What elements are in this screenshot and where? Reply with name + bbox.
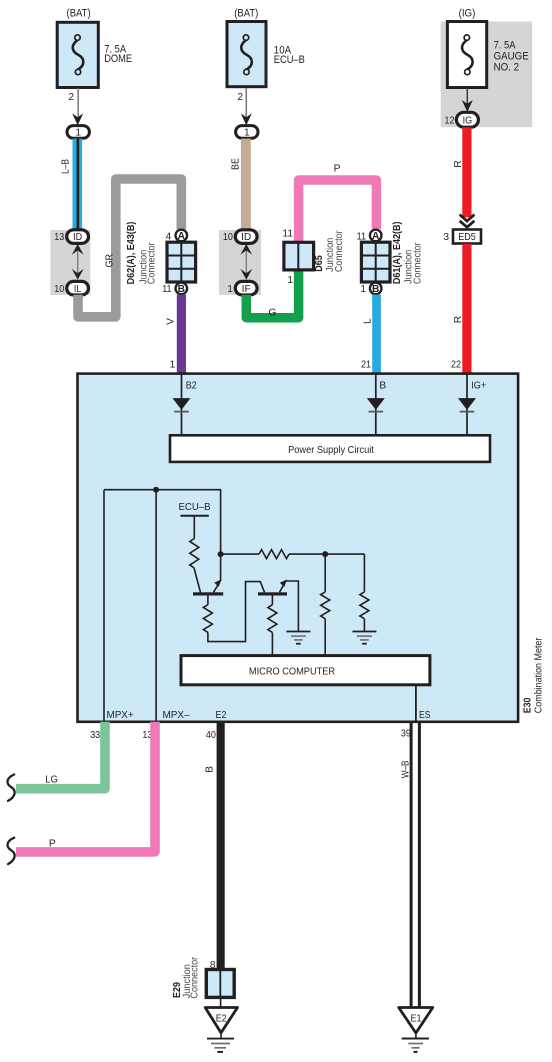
svg-text:1: 1 bbox=[244, 128, 250, 139]
rail2 wire bbox=[221, 553, 365, 555]
connector circle B (D61) bbox=[370, 283, 382, 295]
svg-text:E2: E2 bbox=[216, 1014, 227, 1025]
node dot rail2 bbox=[322, 551, 328, 557]
svg-text:P: P bbox=[49, 838, 56, 849]
diode D-IG bbox=[458, 398, 476, 412]
resistor R-horizontal bbox=[259, 550, 289, 559]
wire P (MPX-) bbox=[16, 722, 155, 852]
svg-text:B2: B2 bbox=[186, 380, 197, 391]
branch resistor to micro computer bbox=[321, 554, 330, 656]
svg-text:12: 12 bbox=[445, 116, 455, 127]
branch resistor to ground bbox=[360, 554, 369, 631]
svg-text:D65: D65 bbox=[314, 255, 325, 272]
meter pin line IG+ bbox=[466, 374, 468, 436]
connector circle 1 (F1) bbox=[67, 126, 89, 139]
transistor Q1 bbox=[193, 579, 223, 595]
svg-text:2: 2 bbox=[68, 92, 74, 103]
svg-text:1: 1 bbox=[75, 128, 81, 139]
wire LG bbox=[16, 722, 105, 789]
svg-text:D62(A), E43(B): D62(A), E43(B) bbox=[126, 222, 137, 285]
svg-text:ED5: ED5 bbox=[458, 232, 476, 243]
connector IG bbox=[456, 112, 478, 127]
svg-text:D61(A), E42(B): D61(A), E42(B) bbox=[392, 221, 403, 284]
in-connector junction arrows ID-IL bbox=[72, 244, 84, 280]
wire F3 to IG connector bbox=[466, 88, 468, 105]
svg-text:IL: IL bbox=[74, 284, 82, 295]
svg-text:Connector: Connector bbox=[190, 956, 201, 998]
junction connector D61 labels bbox=[392, 221, 423, 284]
svg-text:V: V bbox=[166, 318, 177, 325]
svg-text:BE: BE bbox=[231, 158, 242, 170]
meter pin line B bbox=[375, 374, 377, 436]
junction connector D62 box bbox=[167, 242, 196, 282]
svg-text:ECU–B: ECU–B bbox=[274, 54, 305, 66]
wire F1 to connector 1 bbox=[77, 88, 79, 118]
connector circle B (D62) bbox=[176, 283, 188, 295]
fuse F1 7.5A DOME bbox=[57, 22, 98, 87]
diode D-B bbox=[367, 398, 385, 412]
meter pin line B2 bbox=[181, 374, 183, 436]
connector IL bbox=[67, 281, 89, 295]
svg-text:ES: ES bbox=[419, 710, 431, 721]
junction connector D65 labels bbox=[314, 230, 345, 272]
diode D-B2 bbox=[173, 398, 191, 412]
node dot Q1 collector bbox=[218, 551, 224, 557]
svg-text:W–B: W–B bbox=[400, 760, 411, 778]
svg-text:ID: ID bbox=[241, 232, 251, 243]
svg-text:(BAT): (BAT) bbox=[234, 7, 258, 19]
svg-text:GR: GR bbox=[105, 254, 116, 268]
transistor Q2 bbox=[258, 579, 298, 631]
in-connector junction arrows ID-IF bbox=[240, 244, 252, 280]
svg-text:Combination Meter: Combination Meter bbox=[534, 637, 545, 713]
svg-text:11: 11 bbox=[282, 228, 293, 239]
svg-text:L: L bbox=[363, 318, 374, 324]
wire L bbox=[372, 295, 381, 374]
wire E29 to ground E2 bbox=[220, 997, 222, 1007]
svg-text:2: 2 bbox=[237, 92, 243, 103]
node dot MPX- bbox=[153, 487, 159, 493]
svg-text:B: B bbox=[205, 766, 216, 773]
resistor R1 (ECU-B) bbox=[190, 539, 199, 569]
svg-text:B: B bbox=[379, 380, 386, 391]
fuse F2 10A ECU-B bbox=[227, 22, 266, 87]
wire R1 to Q1 bbox=[194, 568, 200, 593]
svg-text:E1: E1 bbox=[411, 1014, 422, 1025]
connector ID (F1 chain) bbox=[67, 230, 89, 244]
svg-text:22: 22 bbox=[451, 359, 461, 370]
svg-text:33: 33 bbox=[90, 730, 100, 741]
svg-text:B: B bbox=[372, 284, 379, 295]
svg-text:DOME: DOME bbox=[104, 53, 132, 65]
junction connector D62(A),E43(B) labels bbox=[126, 222, 158, 285]
connector ID (F2 chain) bbox=[235, 230, 257, 244]
wire ES inside meter bbox=[415, 685, 417, 722]
ground right branch bbox=[352, 632, 376, 644]
svg-text:10: 10 bbox=[223, 232, 233, 243]
svg-text:IG+: IG+ bbox=[471, 380, 486, 391]
wire B (E2) bbox=[217, 722, 225, 970]
svg-text:E2: E2 bbox=[216, 710, 227, 721]
svg-text:NO. 2: NO. 2 bbox=[494, 62, 519, 74]
svg-text:10: 10 bbox=[54, 284, 64, 295]
wire ECU-B down bbox=[193, 516, 195, 539]
svg-text:A: A bbox=[178, 231, 186, 242]
svg-text:Connector: Connector bbox=[147, 242, 158, 284]
wire G bbox=[246, 271, 298, 318]
svg-text:R: R bbox=[453, 160, 464, 167]
connector circle 1 (F2) bbox=[236, 126, 258, 139]
wire V bbox=[177, 295, 186, 374]
label E30 Combination Meter bbox=[523, 637, 545, 713]
svg-text:13: 13 bbox=[54, 232, 64, 243]
svg-text:21: 21 bbox=[361, 359, 371, 370]
wire break P bbox=[7, 838, 14, 864]
svg-text:G: G bbox=[269, 307, 277, 318]
junction connector E29 labels bbox=[172, 956, 201, 998]
svg-text:11: 11 bbox=[162, 284, 172, 295]
svg-text:L–B: L–B bbox=[60, 159, 71, 174]
wire L-B bbox=[73, 139, 83, 231]
wire MPX- vertical bbox=[155, 490, 157, 722]
svg-text:40: 40 bbox=[206, 730, 216, 741]
wire BE bbox=[241, 139, 251, 231]
junction connector D61 box bbox=[361, 242, 390, 282]
connector arrow F3 bbox=[462, 100, 473, 112]
micro computer box bbox=[181, 656, 430, 685]
ground point E1 bbox=[399, 1008, 433, 1052]
wire W-B bbox=[410, 722, 421, 1008]
wire R lower bbox=[462, 244, 471, 374]
wire F2 to connector 1 bbox=[245, 88, 247, 118]
junction connector D65 box bbox=[284, 242, 314, 270]
ground point E2 bbox=[205, 1008, 237, 1052]
svg-text:1: 1 bbox=[287, 275, 293, 286]
connector IF bbox=[235, 281, 257, 295]
svg-text:B: B bbox=[178, 284, 185, 295]
svg-text:Power Supply Circuit: Power Supply Circuit bbox=[288, 445, 374, 456]
Q2 base resistor to micro computer bbox=[268, 596, 277, 656]
wire break LG bbox=[7, 775, 14, 801]
svg-text:ECU–B: ECU–B bbox=[179, 502, 211, 513]
Q1 base resistor chain bbox=[203, 582, 264, 642]
connector arrow F2 bbox=[241, 113, 252, 125]
connector circle A (D61) bbox=[370, 230, 382, 242]
svg-text:MPX+: MPX+ bbox=[107, 710, 134, 721]
ground Q2 emitter bbox=[286, 632, 310, 644]
connector ED5 bbox=[453, 230, 481, 244]
splice chevrons bbox=[460, 215, 475, 228]
shaded block fuse IG bbox=[441, 22, 533, 128]
connector arrow F1 bbox=[72, 113, 83, 125]
junction connector E29 box bbox=[206, 970, 234, 998]
svg-text:1: 1 bbox=[227, 284, 233, 295]
svg-text:(BAT): (BAT) bbox=[67, 7, 91, 19]
svg-text:1: 1 bbox=[360, 284, 366, 295]
ECU-B bar bbox=[180, 515, 208, 517]
svg-text:E30: E30 bbox=[523, 697, 534, 713]
svg-text:Connector: Connector bbox=[413, 242, 424, 284]
svg-text:LG: LG bbox=[45, 775, 58, 786]
svg-text:MICRO COMPUTER: MICRO COMPUTER bbox=[249, 667, 335, 678]
svg-text:IG: IG bbox=[463, 116, 473, 127]
svg-text:MPX–: MPX– bbox=[163, 710, 190, 721]
wire R upper bbox=[462, 127, 471, 217]
wire rail1 to rail2 bbox=[220, 490, 222, 581]
shaded block connector ID/IL bbox=[50, 230, 90, 295]
wire P bbox=[299, 180, 377, 243]
wire MPX+ vertical bbox=[103, 490, 105, 722]
shaded block connector ID/IF bbox=[219, 230, 261, 295]
svg-text:(IG): (IG) bbox=[459, 7, 476, 19]
wire MPX rail bbox=[104, 489, 221, 491]
svg-text:P: P bbox=[334, 163, 341, 174]
svg-text:1: 1 bbox=[170, 359, 176, 370]
svg-text:Connector: Connector bbox=[334, 230, 345, 272]
fuse F3 7.5A GAUGE NO.2 bbox=[447, 22, 486, 88]
wire GR bbox=[78, 179, 181, 317]
svg-text:3: 3 bbox=[443, 232, 449, 243]
svg-text:ID: ID bbox=[73, 232, 82, 243]
svg-text:R: R bbox=[453, 316, 464, 323]
connector circle A (D62) bbox=[176, 230, 188, 242]
svg-text:IF: IF bbox=[242, 284, 251, 295]
combination meter box E30 bbox=[78, 374, 519, 722]
svg-text:A: A bbox=[372, 231, 380, 242]
power supply circuit box bbox=[170, 435, 490, 462]
